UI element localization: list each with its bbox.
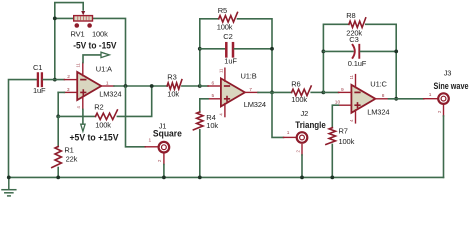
svg-text:1uF: 1uF: [33, 86, 46, 95]
svg-text:9: 9: [341, 87, 344, 93]
wire loop to RV1 wiper: [55, 3, 83, 19]
svg-text:1: 1: [106, 81, 109, 87]
svg-text:1uF: 1uF: [224, 57, 237, 66]
wire C1 left to ground: [9, 80, 37, 178]
wire J1 to rail: [163, 165, 165, 178]
pin 2 stub J2: [301, 145, 303, 155]
resistor R6: [292, 86, 312, 96]
node pin9/R6: [322, 91, 326, 95]
svg-text:U1:C: U1:C: [370, 80, 387, 89]
pin J3 stub: [424, 98, 437, 100]
svg-text:7: 7: [249, 87, 252, 93]
capacitor C2: [226, 43, 233, 56]
pin J2 stub: [284, 136, 296, 138]
node J1 ground: [162, 176, 166, 180]
op-amp U1:C: [351, 85, 375, 113]
svg-text:2: 2: [295, 150, 300, 153]
connector J1: [159, 142, 170, 153]
svg-text:4: 4: [76, 106, 81, 109]
node output/R2: [150, 84, 154, 88]
svg-text:R5: R5: [218, 6, 227, 15]
resistor R2: [96, 110, 118, 120]
svg-text:Triangle: Triangle: [295, 120, 326, 130]
connector J3: [438, 93, 449, 104]
node R1/R2/pin3: [56, 115, 60, 119]
wire feedback left vertical C: [323, 24, 349, 92]
svg-text:RV1: RV1: [71, 29, 85, 38]
wire C1 right to pin2: [43, 79, 64, 81]
pin 10 stub: [339, 104, 352, 106]
resistor R8: [349, 18, 366, 28]
svg-text:R6: R6: [291, 80, 300, 89]
svg-text:2: 2: [67, 74, 70, 80]
op-amp U1:A: [77, 72, 101, 100]
connector J2: [297, 132, 308, 143]
svg-text:0.1uF: 0.1uF: [348, 59, 367, 68]
svg-text:-5V to -15V: -5V to -15V: [73, 41, 116, 51]
pin 11 stub B: [224, 68, 226, 81]
resistor R5: [219, 12, 238, 22]
pin 2 stub J3: [443, 106, 445, 116]
svg-text:100k: 100k: [339, 137, 355, 146]
svg-text:1: 1: [287, 130, 290, 136]
pin 3 stub: [64, 91, 77, 93]
node C2 right: [270, 47, 274, 51]
pin 9 stub: [339, 91, 352, 93]
node pin2/C1: [53, 78, 57, 82]
svg-text:2: 2: [437, 110, 442, 113]
wire pot right down to U1:A output: [93, 18, 126, 86]
wire C3 left: [323, 50, 353, 52]
svg-text:22k: 22k: [66, 155, 78, 164]
node R1 ground: [56, 176, 60, 180]
node R7 ground: [330, 176, 334, 180]
svg-text:+5V to +15V: +5V to +15V: [70, 132, 119, 142]
svg-text:LM324: LM324: [244, 100, 266, 109]
wire R3 to pin6 node: [182, 85, 200, 87]
svg-text:R7: R7: [339, 127, 348, 136]
svg-text:R1: R1: [64, 146, 73, 155]
node C3 right: [394, 50, 398, 54]
svg-text:11: 11: [349, 74, 354, 79]
wire R8 right vertical: [366, 24, 397, 99]
svg-text:R3: R3: [167, 72, 176, 81]
ground: [2, 177, 16, 196]
svg-text:8: 8: [382, 93, 385, 99]
svg-text:5: 5: [212, 93, 215, 99]
node C2 left: [198, 47, 202, 51]
svg-text:6: 6: [212, 80, 215, 86]
pin 2 stub: [64, 79, 77, 81]
svg-text:J2: J2: [301, 109, 309, 118]
resistor R4: [193, 112, 203, 130]
resistor R3: [167, 80, 182, 90]
svg-text:4: 4: [218, 113, 223, 116]
node pin6/R3: [198, 84, 202, 88]
wire junction down to pin2 node: [54, 18, 56, 79]
wire R5 right vertical: [238, 19, 273, 93]
resistor R1: [52, 147, 62, 168]
wire output down to J1: [126, 86, 146, 147]
resistor R7: [326, 128, 336, 145]
svg-text:4: 4: [349, 119, 354, 122]
wire pin11 to -V flag: [83, 55, 101, 63]
wire to R2: [58, 115, 95, 117]
potentiometer RV1: [74, 11, 93, 28]
wire R1: [57, 116, 59, 146]
pin 4 stub: [82, 96, 84, 109]
pin 5 stub: [208, 98, 221, 100]
node RV1 left: [53, 17, 57, 21]
pin J1 stub: [145, 146, 157, 148]
svg-text:11: 11: [75, 62, 80, 67]
wire pin5 to R4: [200, 99, 208, 112]
wire pin10 to R7: [332, 105, 338, 128]
pin 6 stub: [208, 85, 221, 87]
node output/RV1: [124, 84, 128, 88]
node J2 ground: [300, 176, 304, 180]
capacitor C3: [353, 45, 360, 58]
wire R2 right up to output: [117, 86, 151, 116]
pin 11 stub: [82, 63, 84, 76]
op-amp U1:B: [221, 78, 245, 106]
svg-text:1: 1: [149, 138, 152, 144]
svg-text:2: 2: [157, 159, 162, 162]
node ground stub: [7, 176, 11, 180]
wire J3 to rail: [443, 116, 445, 177]
svg-text:LM324: LM324: [367, 108, 389, 117]
svg-text:1: 1: [429, 92, 432, 98]
svg-text:Square: Square: [153, 128, 182, 138]
svg-text:10k: 10k: [206, 121, 218, 130]
pin 7 stub: [245, 91, 258, 93]
svg-text:3: 3: [67, 87, 70, 93]
svg-text:11: 11: [218, 68, 223, 73]
wire U1:A output row: [114, 85, 167, 87]
wire output to R6: [258, 91, 292, 93]
wire output down to J2: [272, 92, 284, 137]
wire pot left: [55, 17, 74, 19]
svg-text:C1: C1: [33, 63, 42, 72]
node U1:B output: [270, 91, 274, 95]
pin 2 stub J1: [163, 154, 165, 164]
node U1:C output: [394, 97, 398, 101]
svg-text:C2: C2: [223, 32, 232, 41]
wire R6 right: [311, 91, 323, 93]
wire output to J3: [389, 98, 424, 100]
svg-text:J3: J3: [444, 68, 452, 77]
svg-text:U1:A: U1:A: [96, 64, 112, 73]
wire R7 to ground: [331, 144, 333, 177]
svg-text:Sine wave: Sine wave: [434, 81, 469, 91]
terminal flag -5V: [101, 52, 109, 57]
node R4 ground: [198, 176, 202, 180]
wire R4 to ground: [199, 130, 201, 178]
node C3 left: [322, 50, 326, 54]
pin 4 stub B: [224, 104, 226, 117]
svg-text:U1:B: U1:B: [241, 71, 257, 80]
svg-text:100k: 100k: [291, 95, 307, 104]
pin 8 stub: [376, 98, 389, 100]
terminal flag +5V: [81, 124, 85, 131]
wire J2 to rail: [301, 155, 303, 177]
pin 11 stub C: [355, 75, 357, 88]
wire pin4 to +V flag: [82, 109, 84, 124]
svg-text:100k: 100k: [92, 29, 108, 38]
ground rail: [9, 176, 444, 178]
svg-text:R2: R2: [94, 103, 103, 112]
wire C3 right: [360, 50, 396, 52]
wire C2 right: [234, 48, 272, 50]
pin 4 stub C: [355, 110, 357, 123]
wire pin3 node: [58, 91, 64, 93]
capacitor C1: [38, 73, 42, 86]
svg-text:10k: 10k: [167, 89, 179, 98]
svg-text:100k: 100k: [217, 23, 233, 32]
wire feedback left vertical: [200, 19, 219, 86]
svg-text:R8: R8: [346, 11, 355, 20]
wire C2 left: [200, 48, 225, 50]
pin 1 stub: [101, 85, 114, 87]
svg-text:LM324: LM324: [99, 90, 121, 99]
svg-text:C3: C3: [349, 35, 358, 44]
svg-text:100k: 100k: [95, 120, 111, 129]
